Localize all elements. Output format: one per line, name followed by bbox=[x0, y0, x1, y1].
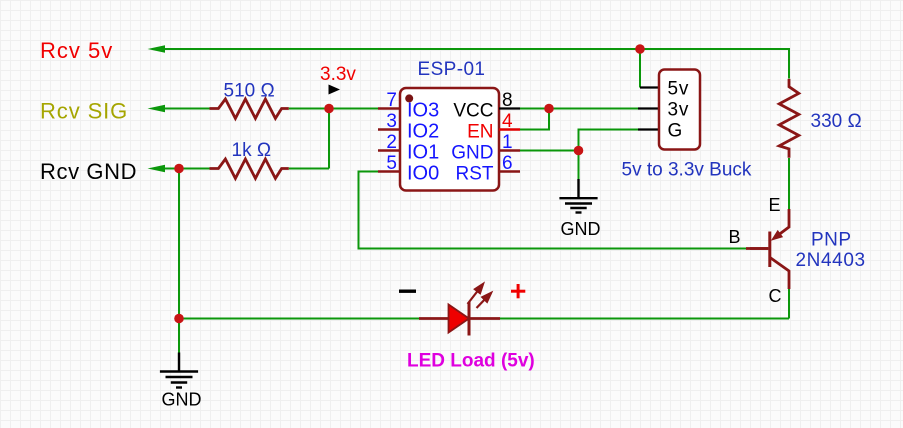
pin stub EN pin4 (red) bbox=[499, 128, 520, 131]
value label PNP bbox=[811, 230, 852, 251]
pin stub buck 3v (black) bbox=[638, 107, 659, 109]
module buck converter bbox=[659, 70, 700, 150]
label LED Load (5v) bbox=[407, 351, 535, 372]
svg-text:IO2: IO2 bbox=[407, 121, 439, 143]
pin number 4 bbox=[502, 111, 513, 132]
svg-text:IO1: IO1 bbox=[407, 142, 439, 164]
pin number 3 bbox=[386, 111, 397, 132]
wire ground column to symbol bbox=[178, 319, 180, 353]
wire ground column down bbox=[178, 169, 180, 319]
svg-text:5v: 5v bbox=[668, 79, 690, 100]
svg-text:VCC: VCC bbox=[453, 100, 493, 121]
junction VCC / EN bbox=[544, 104, 554, 114]
wire Rcv GND net (arrow + to resistor) bbox=[148, 165, 210, 173]
LED light arrows bbox=[468, 284, 492, 308]
junction GND net bbox=[574, 146, 584, 156]
buck pin label 5v bbox=[668, 79, 690, 100]
value label 1k Ω bbox=[232, 140, 272, 161]
pin label IO1 bbox=[407, 142, 439, 164]
pin label EN bbox=[467, 121, 493, 142]
value label 2N4403 bbox=[796, 250, 866, 271]
svg-text:IO3: IO3 bbox=[407, 100, 439, 122]
svg-text:Rcv SIG: Rcv SIG bbox=[40, 98, 128, 123]
net label Rcv 5v bbox=[40, 38, 113, 63]
transistor PNP 2N4403 bbox=[750, 209, 789, 289]
polarity minus bbox=[399, 290, 416, 293]
label GND middle bbox=[561, 219, 601, 239]
resistor 510 Ω bbox=[210, 99, 289, 118]
wire 1k to 3.3v column bbox=[289, 168, 329, 170]
wire GND net down to symbol bbox=[578, 151, 580, 180]
svg-text:PNP: PNP bbox=[811, 230, 852, 251]
resistor 1k Ω bbox=[210, 159, 289, 178]
wire EN to junction bbox=[520, 109, 549, 130]
svg-text:Rcv 5v: Rcv 5v bbox=[40, 38, 113, 63]
wire LED rail left segment bbox=[179, 318, 419, 320]
pin label VCC bbox=[453, 100, 493, 121]
svg-text:330 Ω: 330 Ω bbox=[811, 111, 862, 132]
pin label IO0 bbox=[407, 163, 439, 185]
pin number 2 bbox=[386, 132, 397, 153]
wire VCC to buck 3v bbox=[520, 108, 638, 110]
svg-text:B: B bbox=[729, 227, 741, 247]
svg-text:3: 3 bbox=[386, 111, 397, 132]
pin label IO3 bbox=[407, 100, 439, 122]
pin number 5 bbox=[386, 153, 397, 174]
pin stub GND pin1 bbox=[499, 149, 520, 152]
wire GND up to buck G bbox=[579, 130, 639, 151]
svg-text:RST: RST bbox=[456, 163, 494, 184]
svg-text:GND: GND bbox=[451, 142, 493, 163]
part name ESP-01 bbox=[418, 59, 486, 80]
wire node 3.3v down to 1k bbox=[328, 109, 330, 169]
svg-text:2N4403: 2N4403 bbox=[796, 250, 866, 271]
svg-text:G: G bbox=[668, 121, 683, 142]
pin stub buck G (black) bbox=[638, 128, 659, 130]
net flag arrow bbox=[329, 85, 341, 95]
pin label C bbox=[769, 286, 782, 306]
value label 510 Ω bbox=[224, 81, 275, 102]
ground symbol left bbox=[160, 353, 198, 388]
svg-text:3.3v: 3.3v bbox=[320, 64, 356, 85]
net label Rcv SIG bbox=[40, 98, 128, 123]
pin label B bbox=[729, 227, 741, 247]
buck pin label 3v bbox=[668, 100, 690, 121]
wire emitter (green) bbox=[788, 158, 790, 209]
svg-text:7: 7 bbox=[386, 90, 397, 111]
svg-text:GND: GND bbox=[162, 390, 202, 410]
net label Rcv GND bbox=[40, 159, 137, 184]
pin label E bbox=[769, 195, 781, 215]
value label 330 Ω bbox=[811, 111, 862, 132]
svg-text:LED Load (5v): LED Load (5v) bbox=[407, 351, 535, 372]
LED diode bbox=[419, 302, 500, 336]
wire Rcv SIG net (arrow + to resistor) bbox=[148, 105, 210, 113]
resistor 330 Ω (vertical) bbox=[779, 79, 799, 158]
pin label IO2 bbox=[407, 121, 439, 143]
wire 510 output to ESP IO3 bbox=[289, 108, 378, 110]
svg-text:5: 5 bbox=[386, 153, 397, 174]
svg-text:EN: EN bbox=[467, 121, 493, 142]
svg-text:510 Ω: 510 Ω bbox=[224, 81, 275, 102]
junction 5v rail to buck bbox=[635, 44, 645, 54]
buck pin label G bbox=[668, 121, 683, 142]
ground symbol middle bbox=[559, 179, 597, 213]
svg-text:1k Ω: 1k Ω bbox=[232, 140, 272, 161]
pin number 6 bbox=[502, 153, 513, 174]
svg-text:5v to 3.3v Buck: 5v to 3.3v Buck bbox=[622, 160, 752, 181]
wire buck 5v drop bbox=[639, 49, 641, 88]
junction node 3.3v bbox=[324, 104, 334, 114]
IC ESP-01 bbox=[378, 88, 520, 191]
svg-text:GND: GND bbox=[561, 219, 601, 239]
pin number 7 bbox=[386, 90, 397, 111]
svg-text:6: 6 bbox=[502, 153, 513, 174]
junction Rcv GND / ground column bbox=[174, 164, 184, 174]
pin number 1 bbox=[502, 132, 513, 153]
polarity plus bbox=[511, 284, 525, 298]
pin stub buck 5v (black) bbox=[640, 86, 659, 88]
svg-text:3v: 3v bbox=[668, 100, 690, 121]
wire Rcv 5v net (top rail with left arrow, over to emitter column) bbox=[148, 45, 790, 78]
pin number 8 bbox=[502, 90, 513, 111]
wire LED rail right segment bbox=[500, 318, 789, 320]
svg-text:E: E bbox=[769, 195, 781, 215]
pin label GND bbox=[451, 142, 493, 163]
pin stub VCC pin8 (black) bbox=[499, 107, 520, 109]
wire GND pin to buck G bbox=[520, 150, 579, 152]
pin label RST bbox=[456, 163, 494, 184]
svg-text:C: C bbox=[769, 286, 782, 306]
wire collector down to LED rail bbox=[788, 289, 790, 319]
net flag 3.3v text bbox=[320, 64, 356, 85]
svg-text:2: 2 bbox=[386, 132, 397, 153]
svg-text:Rcv GND: Rcv GND bbox=[40, 159, 137, 184]
junction ground column / LED rail bbox=[174, 314, 184, 324]
wire base net from IO0 bbox=[359, 172, 769, 249]
svg-text:IO0: IO0 bbox=[407, 163, 439, 185]
svg-text:ESP-01: ESP-01 bbox=[418, 59, 486, 80]
label GND left bbox=[162, 390, 202, 410]
label 5v to 3.3v Buck bbox=[622, 160, 752, 181]
